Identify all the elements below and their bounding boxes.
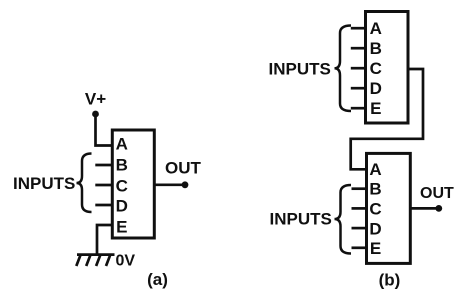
svg-text:V+: V+ [85, 90, 106, 109]
svg-text:C: C [116, 176, 128, 195]
svg-text:D: D [116, 197, 128, 216]
input stub C (b top) [351, 67, 366, 70]
ground symbol [76, 255, 114, 266]
IC body (b) top [366, 12, 409, 124]
svg-text:C: C [370, 59, 382, 78]
input stub D (b top) [351, 87, 366, 90]
input stub C [95, 184, 112, 187]
input stub E (b top) [351, 107, 366, 110]
IC body (a) [112, 130, 154, 238]
svg-text:INPUTS: INPUTS [13, 174, 75, 193]
wire V+ to pin A [96, 114, 113, 146]
output terminal dot (b) [435, 205, 442, 212]
input stub C (b bottom) [352, 207, 367, 210]
brace (b bottom) [335, 185, 352, 254]
input stub B (b top) [351, 47, 366, 50]
V+ terminal dot [92, 111, 99, 118]
svg-text:A: A [116, 134, 128, 153]
svg-text:A: A [369, 160, 381, 179]
wire (b) top output to bottom pin A [351, 69, 423, 169]
svg-text:INPUTS: INPUTS [269, 60, 331, 79]
svg-text:(b): (b) [379, 271, 401, 290]
output wire (b) [410, 207, 436, 210]
svg-text:D: D [370, 79, 382, 98]
svg-text:0V: 0V [116, 253, 136, 270]
svg-text:(a): (a) [147, 270, 168, 289]
IC body (b) bottom [367, 153, 411, 263]
svg-text:OUT: OUT [420, 185, 454, 202]
svg-text:A: A [370, 19, 382, 38]
input stub B (b bottom) [352, 187, 367, 190]
brace (a) [77, 154, 92, 213]
brace (b top) [335, 26, 352, 112]
svg-text:E: E [116, 217, 127, 236]
svg-text:OUT: OUT [165, 159, 202, 178]
wire pin E to ground [97, 225, 112, 256]
output wire (a) [154, 183, 182, 186]
input stub D [95, 204, 112, 207]
svg-text:B: B [370, 39, 382, 58]
svg-text:E: E [370, 99, 381, 118]
svg-text:B: B [369, 180, 381, 199]
input stub B [95, 164, 112, 167]
input stub E (b bottom) [352, 246, 367, 249]
svg-text:B: B [116, 155, 128, 174]
input stub D (b bottom) [352, 227, 367, 230]
input stub A (b top) [351, 27, 366, 30]
svg-text:E: E [370, 239, 381, 258]
svg-text:INPUTS: INPUTS [270, 210, 332, 229]
svg-text:C: C [369, 200, 381, 219]
output terminal dot (a) [182, 181, 189, 188]
svg-text:D: D [369, 219, 381, 238]
